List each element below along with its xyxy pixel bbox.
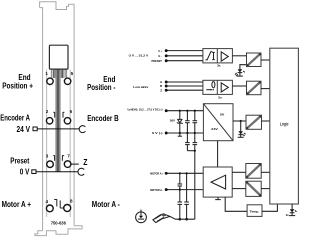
svg-text:Z: Z <box>160 88 162 92</box>
svg-text:3x: 3x <box>218 96 222 100</box>
svg-text:Preset: Preset <box>10 157 29 166</box>
svg-text:PRESET: PRESET <box>152 59 162 63</box>
svg-text:Encoder A: Encoder A <box>0 114 30 123</box>
svg-text:2: 2 <box>46 109 49 114</box>
svg-text:E -: E - <box>159 54 162 58</box>
svg-text:Motor A -: Motor A - <box>92 200 120 209</box>
svg-text:1: 1 <box>45 71 48 76</box>
svg-text:4: 4 <box>46 199 49 204</box>
svg-text:MOTOR A +: MOTOR A + <box>150 172 163 176</box>
svg-text:6: 6 <box>70 109 73 114</box>
svg-text:750-636: 750-636 <box>51 220 67 225</box>
svg-text:E +: E + <box>159 49 163 53</box>
svg-text:4x: 4x <box>286 213 289 217</box>
svg-text:Position -: Position - <box>87 83 116 92</box>
svg-text:36V: 36V <box>170 118 176 122</box>
svg-text:8: 8 <box>70 198 73 203</box>
svg-text:Position +: Position + <box>2 81 33 90</box>
svg-text:3x: 3x <box>217 63 221 67</box>
svg-text:MOTOR A -: MOTOR A - <box>150 188 163 192</box>
svg-text:0 V: 0 V <box>20 168 30 177</box>
svg-text:Motor A +: Motor A + <box>2 200 32 209</box>
svg-text:Low aktiv: Low aktiv <box>133 85 148 89</box>
svg-text:Uₖ#8343; 19,2 ... 27,5 V DC (+: Uₖ#8343; 19,2 ... 27,5 V DC (+) <box>128 107 163 111</box>
svg-text:-3 V ... 31,2 V: -3 V ... 31,2 V <box>128 53 149 57</box>
svg-text:24V: 24V <box>211 127 219 131</box>
svg-text:Encoder B: Encoder B <box>87 114 119 123</box>
svg-text:Temp.: Temp. <box>250 209 260 213</box>
svg-text:Logic: Logic <box>280 121 289 126</box>
svg-text:24 V: 24 V <box>17 125 31 134</box>
svg-text:Z: Z <box>83 158 87 167</box>
svg-text:5: 5 <box>71 71 74 76</box>
svg-text:7: 7 <box>67 154 70 159</box>
svg-text:3: 3 <box>46 154 49 159</box>
svg-text:0 V (-): 0 V (-) <box>152 131 163 135</box>
